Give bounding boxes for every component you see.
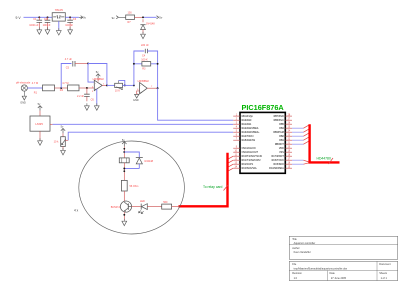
svg-text:OSC1/CLKIN: OSC1/CLKIN xyxy=(242,148,256,150)
junction xyxy=(142,16,144,18)
node 5V output arrow xyxy=(79,16,87,20)
svg-text:1N4148: 1N4148 xyxy=(146,23,155,26)
LED D3 xyxy=(139,200,148,214)
pin 10 OSC2/CLKOUT xyxy=(233,151,258,155)
wire RB to bus xyxy=(292,131,304,133)
svg-text:RB6/PGC: RB6/PGC xyxy=(274,120,285,122)
svg-text:RC3/SCK/SCL: RC3/SCK/SCL xyxy=(242,168,258,170)
pin 12 RC1/T1OSI/CCP2 xyxy=(233,159,261,163)
svg-text:220 nF: 220 nF xyxy=(141,44,149,47)
wire inverting input drop xyxy=(88,64,94,83)
pin 6 RA4/T0CKI xyxy=(233,135,254,139)
op-amp U2A xyxy=(92,78,104,93)
wire pH to RA0 xyxy=(158,88,234,120)
wire to 5V terminal xyxy=(135,16,144,18)
ground xyxy=(122,219,127,226)
wire base xyxy=(132,206,141,208)
pin 14 RC3/SCK/SCL xyxy=(233,167,257,171)
svg-text:RA0/AN0: RA0/AN0 xyxy=(242,119,252,122)
pin 3 RA1/AN1 xyxy=(233,123,252,127)
svg-text:R1: R1 xyxy=(34,91,38,94)
wire + input to ground xyxy=(137,91,140,95)
wire RC to relay bus xyxy=(228,164,233,167)
wire xyxy=(79,87,94,89)
pin 7 RA5/AN4/SS xyxy=(233,139,255,143)
wire 9V rail left xyxy=(24,16,53,18)
junction xyxy=(133,84,135,86)
svg-text:BC547A: BC547A xyxy=(111,206,121,209)
svg-text:10 k: 10 k xyxy=(54,141,59,144)
wire xyxy=(107,84,115,86)
svg-text:RB3/PGM: RB3/PGM xyxy=(273,132,284,134)
svg-text:RA3/AN3/VREF+: RA3/AN3/VREF+ xyxy=(242,131,261,134)
wire 9V rail right xyxy=(65,16,79,18)
svg-text:MCLR/Vpp: MCLR/Vpp xyxy=(242,116,254,118)
transistor Q1 BC547A xyxy=(111,201,132,212)
wire to bus xyxy=(172,206,179,208)
svg-text:100 nF: 100 nF xyxy=(65,24,73,27)
wire output xyxy=(102,84,107,86)
potentiometer R4 10K xyxy=(115,80,123,92)
capacitor C3 100nF xyxy=(65,17,77,30)
wire sensor ground xyxy=(39,131,41,140)
svg-text:Date: Date xyxy=(330,272,336,275)
junction node guard xyxy=(60,87,62,89)
wire xyxy=(147,206,161,208)
svg-text:1 of 1: 1 of 1 xyxy=(381,277,388,280)
pin 17 RC6/TX/CK xyxy=(272,159,292,163)
wire RC to relay bus xyxy=(228,168,233,171)
pin 23 RB2 xyxy=(279,135,292,139)
op-amp U2B xyxy=(137,80,149,96)
diode D1 1N4148 xyxy=(140,19,155,33)
svg-text:5v: 5v xyxy=(83,16,86,20)
wire op-amp V- xyxy=(96,89,98,105)
wire RC to bus xyxy=(292,159,304,161)
wire feedback top xyxy=(88,64,107,87)
svg-text:RC2/CCP1: RC2/CCP1 xyxy=(242,164,254,166)
svg-text:LED: LED xyxy=(140,200,145,203)
svg-text:RC1/T1OSI/CCP2: RC1/T1OSI/CCP2 xyxy=(242,160,262,162)
svg-text:GND: GND xyxy=(20,102,26,105)
junction xyxy=(157,87,159,89)
svg-text:1.0: 1.0 xyxy=(294,277,298,280)
svg-text:VDD: VDD xyxy=(279,148,284,150)
svg-text:RC4/SDI/SDA: RC4/SDI/SDA xyxy=(269,167,284,170)
svg-text:9 V: 9 V xyxy=(16,16,22,20)
svg-text:1N4148: 1N4148 xyxy=(144,160,153,163)
svg-text:3: 3 xyxy=(92,91,94,93)
potentiometer R5 10k xyxy=(54,137,66,147)
pin 11 RC0/T1OSO/T1CKI xyxy=(233,155,262,159)
bus HD44780 xyxy=(310,124,340,162)
wire RB to bus xyxy=(292,127,304,129)
svg-text:-: - xyxy=(95,82,96,85)
svg-text:-: - xyxy=(140,85,141,88)
svg-text:R7: R7 xyxy=(128,21,132,24)
junction xyxy=(124,84,126,86)
svg-text:C3: C3 xyxy=(73,18,77,21)
svg-text:9v: 9v xyxy=(112,16,116,20)
junction xyxy=(87,63,89,65)
wire resistor row xyxy=(134,63,158,65)
junction xyxy=(123,168,125,170)
ground xyxy=(133,94,139,102)
ground xyxy=(94,103,99,110)
svg-text:C6: C6 xyxy=(91,99,95,102)
svg-text:RA2/AN2/VREF-: RA2/AN2/VREF- xyxy=(242,127,260,130)
wire feedback top right xyxy=(147,51,157,88)
power 5V xyxy=(96,70,101,79)
pin 26 RB5 xyxy=(279,123,292,127)
power 5V xyxy=(122,138,127,147)
wire feedback left vertical xyxy=(134,51,144,85)
svg-text:560: 560 xyxy=(163,201,168,204)
pin 20 VDD xyxy=(279,147,292,151)
svg-text:RA1/AN1: RA1/AN1 xyxy=(242,123,252,126)
svg-text:LM35: LM35 xyxy=(35,122,43,126)
capacitor C2 100nF xyxy=(43,17,51,30)
svg-text:56 Ohm: 56 Ohm xyxy=(130,185,139,188)
pin 5 RA3/AN3/VREF+ xyxy=(233,131,260,135)
svg-text:VSS: VSS xyxy=(279,152,284,154)
junction xyxy=(133,63,135,65)
ground xyxy=(20,96,26,104)
capacitor C6 2.2nF xyxy=(77,88,94,102)
pin 15 RC4/SDI/SDA xyxy=(269,167,292,171)
pin 21 RB0/INT xyxy=(275,143,292,147)
svg-text:C4: C4 xyxy=(142,55,146,58)
svg-text:C1: C1 xyxy=(33,18,37,21)
svg-text:4.7 M: 4.7 M xyxy=(62,82,68,85)
ground xyxy=(56,28,61,35)
pin 2 RA0/AN0 xyxy=(233,119,252,123)
svg-text:RB2: RB2 xyxy=(279,136,284,138)
svg-text:OSC2/CLKOUT: OSC2/CLKOUT xyxy=(242,152,259,154)
svg-text:C5: C5 xyxy=(66,66,70,69)
resistor R1 4.7M xyxy=(32,82,55,94)
wire RB to bus xyxy=(292,139,304,141)
power 5V xyxy=(61,125,66,134)
capacitor C1 1000uF xyxy=(29,17,42,30)
wire output pin xyxy=(50,123,53,125)
pin 4 RA2/AN2/VREF- xyxy=(233,127,259,131)
wire RC to relay bus xyxy=(228,160,233,163)
pin 18 RC7/RX/DT xyxy=(272,155,292,159)
pin 27 RB6/PGC xyxy=(274,119,292,123)
wire xyxy=(123,147,125,158)
pin 1 MCLR/Vpp xyxy=(233,114,253,118)
svg-text:R3: R3 xyxy=(142,68,146,71)
svg-text:RC0/T1OSO/T1CKI: RC0/T1OSO/T1CKI xyxy=(242,156,263,158)
svg-text:RB5: RB5 xyxy=(279,124,284,126)
wire xyxy=(123,84,134,86)
junction xyxy=(69,16,71,18)
relay coil K1 xyxy=(119,158,129,163)
svg-text:GND: GND xyxy=(133,99,139,102)
capacitor C5 4.7uF xyxy=(65,58,88,70)
svg-text:RB0/INT: RB0/INT xyxy=(275,144,285,146)
wire output xyxy=(147,87,157,89)
wire 2.5V ref to RA3 xyxy=(68,132,233,140)
svg-text:RC7/RX/DT: RC7/RX/DT xyxy=(272,156,285,158)
svg-text:4 x: 4 x xyxy=(74,209,79,213)
svg-text:Aquarium controller: Aquarium controller xyxy=(294,242,316,245)
svg-text:1000 uF: 1000 uF xyxy=(29,24,39,27)
wire RC to bus xyxy=(292,163,304,165)
svg-text:RA5/AN4/SS: RA5/AN4/SS xyxy=(242,139,256,142)
pin 22 RB1 xyxy=(279,139,292,143)
wire wiper loop xyxy=(119,80,125,85)
resistor R3 100K xyxy=(141,59,151,71)
wire wiper xyxy=(65,139,68,141)
pin 24 RB3/PGM xyxy=(273,131,292,135)
junction xyxy=(123,148,125,150)
wire RC to relay bus xyxy=(228,156,233,159)
svg-text:tmp/Maarten/Bureaublad/aquariu: tmp/Maarten/Bureaublad/aquariumcontrolle… xyxy=(294,267,348,270)
svg-text:R2: R2 xyxy=(60,89,64,92)
wire emitter xyxy=(123,212,125,220)
node 5V terminal xyxy=(157,16,163,20)
svg-text:RB4: RB4 xyxy=(279,128,284,130)
junction xyxy=(47,16,49,18)
svg-text:Koen Vanduffel: Koen Vanduffel xyxy=(294,251,311,254)
pin 25 RB4 xyxy=(279,127,292,131)
junction xyxy=(38,16,40,18)
ground xyxy=(141,32,146,39)
diode D2 1N4148 xyxy=(124,152,153,169)
pin 28 RB7/PGD xyxy=(274,114,292,118)
pin 16 RC5/SDO xyxy=(273,163,292,167)
sensor U3 LM35 xyxy=(30,116,50,131)
svg-text:Sheets: Sheets xyxy=(379,272,388,275)
pin 9 OSC1/CLKIN xyxy=(233,147,256,151)
wire coil bottom xyxy=(123,163,125,181)
svg-text:Author: Author xyxy=(292,247,300,250)
svg-text:Title: Title xyxy=(292,238,297,241)
wire xyxy=(55,87,68,89)
svg-text:78L05: 78L05 xyxy=(55,8,63,12)
ground xyxy=(38,138,43,145)
chip body xyxy=(240,112,285,173)
junction xyxy=(86,87,88,89)
svg-text:Revision: Revision xyxy=(292,272,302,275)
ground xyxy=(61,148,66,155)
svg-text:2.2 nF: 2.2 nF xyxy=(77,95,85,98)
pin 13 RC2/CCP1 xyxy=(233,163,254,167)
regulator U1 78L05 xyxy=(52,8,65,21)
svg-text:RA4/T0CKI: RA4/T0CKI xyxy=(242,135,254,138)
capacitor C4 220nF xyxy=(141,44,149,58)
ground xyxy=(85,103,90,110)
svg-text:File: File xyxy=(292,263,297,266)
resistor R2 4.7M xyxy=(60,82,79,92)
svg-text:RC6/TX/CK: RC6/TX/CK xyxy=(272,160,285,162)
wire pot bottom xyxy=(62,147,64,150)
ground xyxy=(37,27,42,34)
svg-text:4.7 uF: 4.7 uF xyxy=(65,58,73,61)
svg-text:27 June 2005: 27 June 2005 xyxy=(331,277,347,280)
junction xyxy=(123,214,125,216)
svg-text:Document: Document xyxy=(379,263,391,266)
svg-text:5v: 5v xyxy=(159,16,163,20)
svg-text:PIC16F876A: PIC16F876A xyxy=(242,103,285,112)
svg-text:100 K: 100 K xyxy=(141,59,148,62)
boundary ellipse xyxy=(79,141,185,234)
wire RB to bus xyxy=(292,135,304,137)
svg-text:RC5/SDO: RC5/SDO xyxy=(273,164,284,166)
svg-text:4.7 M: 4.7 M xyxy=(32,82,38,85)
svg-text:To relay card: To relay card xyxy=(203,185,223,189)
svg-text:pH-electrode: pH-electrode xyxy=(16,81,31,84)
resistor R8 56 Ohm xyxy=(121,180,138,191)
wire guard vertical xyxy=(61,64,71,89)
ground xyxy=(68,27,73,34)
pin 19 VSS xyxy=(279,151,292,155)
wire RB to bus xyxy=(292,143,304,145)
svg-text:10 K: 10 K xyxy=(115,89,120,92)
node pH-electrode connector J1 xyxy=(16,81,31,96)
resistor R6 560 xyxy=(162,201,172,209)
junction xyxy=(106,84,108,86)
wire xyxy=(123,191,125,201)
svg-text:RB7/PGD: RB7/PGD xyxy=(274,116,285,118)
wire regulator ground xyxy=(58,21,60,31)
power 5V xyxy=(38,102,43,111)
resistor R7 100 xyxy=(126,11,135,24)
bus to relay card xyxy=(179,153,228,207)
svg-text:100 nF: 100 nF xyxy=(43,24,51,27)
wire xyxy=(27,87,42,89)
svg-text:100: 100 xyxy=(128,11,133,14)
ground xyxy=(45,27,50,34)
svg-text:RB1: RB1 xyxy=(279,140,284,142)
junction xyxy=(157,63,159,65)
svg-text:HD44780: HD44780 xyxy=(317,156,331,160)
wire LM35 to RA1 xyxy=(53,123,234,125)
